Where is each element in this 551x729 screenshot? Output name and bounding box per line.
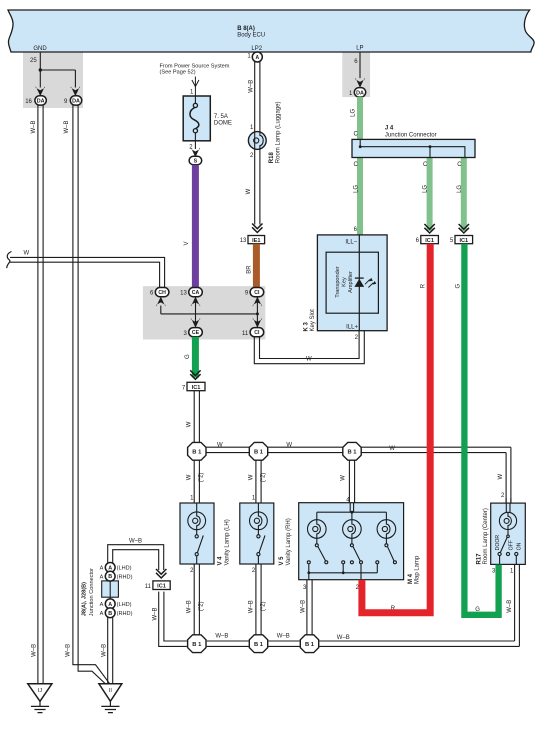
svg-text:W: W — [306, 356, 312, 362]
svg-text:13: 13 — [180, 291, 187, 297]
svg-text:R: R — [420, 283, 426, 288]
svg-text:2: 2 — [190, 568, 194, 574]
svg-text:LG: LG — [353, 185, 359, 193]
svg-text:(See Page 52): (See Page 52) — [160, 70, 196, 76]
svg-text:Key: Key — [341, 277, 347, 287]
svg-text:R17: R17 — [476, 553, 482, 565]
svg-text:B 8(A): B 8(A) — [237, 26, 255, 32]
svg-text:W–B: W–B — [31, 120, 37, 133]
svg-text:Body ECU: Body ECU — [237, 33, 265, 39]
svg-text:Junction Connector: Junction Connector — [89, 568, 95, 616]
svg-text:W: W — [246, 188, 252, 194]
svg-text:(*2): (*2) — [260, 473, 266, 483]
svg-text:1: 1 — [247, 54, 251, 60]
svg-text:(LHD): (LHD) — [117, 566, 132, 572]
svg-text:11: 11 — [145, 584, 152, 590]
svg-text:IC1: IC1 — [425, 238, 434, 244]
svg-text:IJ: IJ — [38, 688, 43, 694]
svg-text:S: S — [194, 159, 198, 165]
svg-text:7: 7 — [182, 385, 186, 391]
svg-text:(*2): (*2) — [260, 601, 266, 611]
svg-text:1: 1 — [190, 496, 194, 502]
svg-text:W: W — [389, 446, 395, 452]
svg-text:J8(A), J28(B): J8(A), J28(B) — [82, 582, 88, 616]
svg-text:(RHD): (RHD) — [117, 611, 133, 617]
svg-text:1: 1 — [190, 90, 194, 96]
svg-text:13: 13 — [240, 238, 247, 244]
svg-text:A: A — [108, 602, 112, 608]
svg-text:W: W — [248, 474, 254, 480]
svg-text:BR: BR — [247, 265, 253, 274]
svg-text:LG: LG — [350, 108, 356, 116]
svg-text:A: A — [100, 574, 104, 580]
svg-text:B 1: B 1 — [347, 449, 357, 455]
svg-text:R18: R18 — [269, 152, 275, 164]
svg-text:2: 2 — [189, 145, 193, 151]
svg-text:1: 1 — [252, 496, 256, 502]
svg-text:Key Slot: Key Slot — [310, 309, 316, 332]
svg-text:W–B: W–B — [31, 644, 37, 657]
svg-text:IC1: IC1 — [459, 238, 468, 244]
svg-text:B 1: B 1 — [192, 642, 202, 648]
svg-text:W: W — [217, 442, 223, 448]
svg-text:(*2): (*2) — [199, 473, 205, 483]
svg-text:11: 11 — [242, 331, 249, 337]
svg-text:LG: LG — [457, 185, 463, 193]
svg-text:A: A — [108, 565, 112, 571]
svg-text:2: 2 — [501, 493, 505, 499]
svg-text:W–B: W–B — [101, 644, 107, 657]
svg-text:IC1: IC1 — [192, 385, 201, 391]
svg-text:B 1: B 1 — [254, 642, 264, 648]
svg-text:A: A — [100, 611, 104, 617]
svg-text:(RHD): (RHD) — [117, 574, 133, 580]
svg-text:W–B: W–B — [301, 600, 307, 613]
svg-text:GND: GND — [33, 46, 47, 52]
svg-text:16: 16 — [25, 99, 32, 105]
svg-text:OFF: OFF — [509, 540, 515, 550]
svg-text:W–B: W–B — [187, 600, 193, 613]
svg-text:K 3: K 3 — [303, 322, 309, 332]
svg-text:W–B: W–B — [64, 120, 70, 133]
svg-text:2: 2 — [355, 335, 359, 341]
svg-text:W–B: W–B — [152, 607, 158, 620]
svg-text:W: W — [187, 474, 193, 480]
svg-text:ILL−: ILL− — [345, 240, 357, 246]
svg-text:A: A — [255, 55, 259, 61]
svg-text:ON: ON — [516, 542, 522, 550]
svg-text:IC1: IC1 — [157, 584, 166, 590]
svg-text:DA: DA — [37, 99, 45, 105]
svg-text:B 1: B 1 — [305, 642, 315, 648]
svg-text:(*2): (*2) — [199, 601, 205, 611]
svg-text:C: C — [457, 162, 462, 168]
svg-text:CA: CA — [192, 290, 200, 296]
svg-text:C: C — [423, 162, 428, 168]
svg-text:W–B: W–B — [277, 634, 290, 640]
svg-text:(LHD): (LHD) — [117, 602, 132, 608]
svg-text:B 1: B 1 — [254, 449, 264, 455]
svg-text:DA: DA — [72, 99, 80, 105]
svg-text:DA: DA — [356, 90, 364, 96]
svg-text:W–B: W–B — [215, 634, 228, 640]
svg-text:W: W — [341, 475, 347, 481]
svg-text:C: C — [353, 132, 358, 138]
svg-text:II: II — [109, 688, 113, 694]
svg-text:CH: CH — [158, 290, 166, 296]
svg-text:From Power Source System: From Power Source System — [160, 63, 230, 69]
svg-text:W: W — [498, 473, 504, 479]
svg-text:CI: CI — [254, 290, 260, 296]
svg-text:W–B: W–B — [507, 600, 513, 613]
svg-text:B: B — [108, 574, 112, 580]
svg-text:LG: LG — [423, 185, 429, 193]
svg-text:B 1: B 1 — [192, 449, 202, 455]
svg-text:C: C — [353, 162, 358, 168]
svg-text:V 5: V 5 — [279, 556, 285, 566]
svg-text:LP: LP — [356, 45, 363, 51]
svg-text:Vanity Lamp (RH): Vanity Lamp (RH) — [286, 518, 292, 565]
svg-text:W–B: W–B — [249, 80, 255, 93]
svg-text:1: 1 — [250, 125, 254, 131]
svg-text:M 4: M 4 — [408, 573, 414, 584]
svg-text:W: W — [24, 251, 30, 257]
svg-text:W–B: W–B — [129, 539, 142, 545]
svg-text:Room Lamp (Luggage): Room Lamp (Luggage) — [276, 101, 282, 163]
svg-text:W–B: W–B — [337, 635, 350, 641]
svg-text:W–B: W–B — [248, 600, 254, 613]
svg-text:1: 1 — [510, 568, 514, 574]
svg-text:Map Lamp: Map Lamp — [414, 555, 420, 584]
svg-text:7. 5A: 7. 5A — [214, 114, 228, 120]
svg-text:Vanity Lamp (LH): Vanity Lamp (LH) — [225, 519, 231, 565]
svg-text:B: B — [108, 611, 112, 617]
svg-text:Room Lamp (Center): Room Lamp (Center) — [483, 508, 489, 564]
svg-text:6: 6 — [416, 238, 420, 244]
svg-text:2: 2 — [250, 153, 254, 159]
svg-text:ILL+: ILL+ — [346, 325, 358, 331]
svg-text:W: W — [187, 421, 193, 427]
svg-text:V: V — [184, 241, 190, 245]
svg-text:CI: CI — [254, 330, 260, 336]
svg-text:5: 5 — [450, 238, 454, 244]
svg-text:DOME: DOME — [214, 120, 232, 126]
svg-text:W–B: W–B — [65, 644, 71, 657]
svg-text:A: A — [100, 602, 104, 608]
svg-text:V 4: V 4 — [218, 556, 224, 566]
svg-text:Transponder: Transponder — [335, 266, 341, 298]
svg-text:G: G — [185, 354, 191, 359]
svg-text:Amplifier: Amplifier — [348, 271, 354, 293]
svg-text:IE1: IE1 — [252, 238, 260, 244]
svg-text:25: 25 — [30, 58, 37, 64]
svg-text:Junction Connector: Junction Connector — [385, 132, 437, 138]
svg-text:A: A — [100, 566, 104, 572]
svg-text:CE: CE — [192, 330, 200, 336]
svg-text:J 4: J 4 — [385, 125, 394, 131]
svg-text:G: G — [456, 283, 462, 288]
svg-text:DOOR: DOOR — [495, 535, 501, 551]
svg-text:2: 2 — [252, 568, 256, 574]
svg-text:W: W — [286, 442, 292, 448]
